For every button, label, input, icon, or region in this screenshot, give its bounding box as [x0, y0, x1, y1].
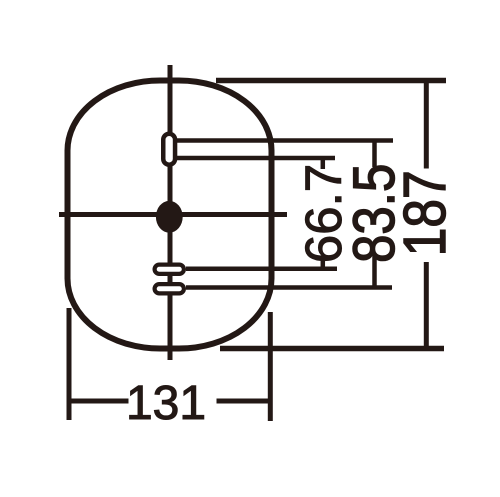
upper pill slot: [155, 265, 184, 274]
lower pill slot: [155, 284, 184, 293]
wire 66.7 dimension line stubs: [321, 158, 326, 269]
wire extension line 1 (83.5 top, from keyhole slot): [175, 138, 393, 143]
wire top extension line (187 top): [216, 78, 446, 84]
wire extension line from upper pill (66.7 bottom): [186, 266, 337, 271]
wire 83.5 dimension line stubs: [372, 141, 377, 288]
wire 131 dimension line segments: [67, 399, 273, 404]
fixture body outline: [68, 81, 272, 349]
wire vertical center line: [168, 65, 173, 360]
wire bottom extension line (187 bottom): [220, 346, 444, 352]
wire extension line from lower pill (83.5 bottom): [186, 285, 392, 290]
wire horizontal center line: [59, 212, 287, 217]
wire 131 right extension line: [268, 312, 273, 421]
wire extension line 2 (66.7 top, from keyhole slot): [175, 156, 335, 161]
mounting knob (center dot): [156, 201, 183, 233]
svg-text:187: 187: [392, 170, 458, 256]
wire 187 dimension line stubs: [424, 81, 429, 349]
svg-text:131: 131: [126, 377, 206, 430]
keyhole slot (top stadium): [163, 134, 175, 165]
wire 131 left extension line: [67, 308, 72, 420]
